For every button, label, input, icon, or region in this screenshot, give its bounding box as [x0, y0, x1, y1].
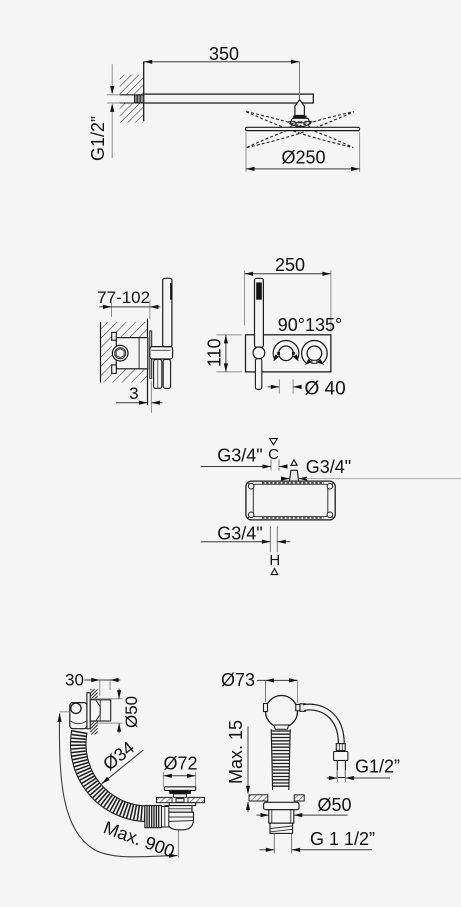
svg-text:C: C [268, 446, 279, 463]
label 90deg 135deg [278, 315, 342, 335]
fig3 handshower hose connector circle [253, 347, 265, 359]
left knob rotation arc [273, 340, 299, 361]
fig4 right port stub [290, 470, 299, 481]
dimension 30 text [65, 671, 84, 690]
fig3 handshower spray face [256, 282, 262, 299]
overflow escutcheon [87, 693, 90, 729]
svg-text:Ø250: Ø250 [281, 148, 325, 168]
fig5 tub deck hatch left [157, 797, 173, 802]
bath drain popup cap [164, 787, 195, 791]
dimension D73 text [221, 670, 255, 690]
fig2 handshower holder bracket [150, 347, 173, 359]
fig1 right extension line to head centre [299, 62, 301, 99]
ball right connector [296, 704, 306, 712]
fig1 connector dark nut [293, 116, 306, 119]
svg-text:G3/4": G3/4" [217, 446, 262, 466]
mixer valve body (in wall) [116, 338, 148, 369]
svg-text:H: H [269, 552, 280, 569]
dimension 250 line [245, 272, 331, 276]
label G1/2 (rotated) [88, 116, 108, 161]
dimension G1.5 extension lines [274, 833, 291, 853]
dimension 3 extension line [150, 381, 152, 413]
dimension D34 leader [102, 750, 144, 784]
bath drain cap neck [174, 794, 187, 798]
dimension 3 line [116, 401, 163, 405]
dimension D73 line [257, 678, 298, 682]
dimension G1/2 extension lines [337, 770, 345, 782]
G1/2 tail pipe [337, 761, 345, 778]
fig5 drain body tab [176, 799, 184, 803]
fig2 hose drop left [154, 360, 162, 389]
svg-text:90°135°: 90°135° [278, 315, 342, 335]
marker triangle above C [270, 439, 278, 445]
fig1 shower head plate [245, 127, 359, 130]
svg-text:110: 110 [205, 338, 225, 367]
fig1 pipe gap mask in wall [120, 96, 144, 103]
dimension D40 line [267, 385, 301, 389]
corrugated hose (curved) [70, 730, 145, 822]
dimension D50 fig6 line [257, 813, 348, 817]
dimension G1/2 vertical leader [110, 64, 114, 158]
ball left stub [264, 704, 268, 712]
fig2 valve body mask [112, 338, 148, 369]
overflow knob body [70, 703, 87, 729]
curved hose to G1/2 [304, 707, 342, 744]
mixer cartridge hex [116, 349, 124, 358]
fig1 pipe lines through wall [120, 95, 144, 103]
dimension Max15 text (rotated) [226, 720, 246, 784]
marker triangle above right port [291, 460, 297, 466]
dimension 77-102 text [97, 288, 150, 307]
fig1 tilted head position (dashed, +18.5deg) [245, 105, 356, 151]
dimension right port arrows [281, 477, 307, 481]
dimension D72 text [163, 754, 197, 774]
dimension D73 extension lines [266, 680, 298, 703]
dimension Max900 extension at drain [178, 830, 180, 859]
fig2 wall hatched section [101, 322, 148, 383]
fig2 trim plate (3mm) [150, 331, 152, 379]
fig5 drain under-deck flange [169, 803, 196, 806]
svg-text:G1/2”: G1/2” [88, 116, 108, 161]
fig1 pipe wall fitting [135, 95, 144, 103]
fig1 head mount skirt [290, 118, 311, 126]
svg-text:Ø73: Ø73 [221, 670, 255, 690]
dimension 110 text (rotated) [205, 338, 225, 367]
dimension H extension lines [270, 526, 277, 552]
svg-text:G1/2”: G1/2” [355, 757, 400, 777]
left knob [278, 346, 295, 361]
dimension 30 extension lines [100, 680, 110, 696]
fig1 pipe extension lines (G1/2 dim) [107, 95, 120, 103]
overflow knob circle [71, 703, 81, 713]
svg-text:Ø 40: Ø 40 [305, 378, 346, 399]
right knob [307, 346, 322, 363]
fig6 tub deck hatch left [249, 795, 268, 801]
fig3 handshower handle [255, 278, 264, 347]
valve body bottom port strip [262, 517, 324, 519]
dimension G1/2 line [327, 776, 390, 780]
dimension 110 line [224, 335, 228, 372]
bath drain cap dark band [169, 790, 191, 794]
valve body corner screws [248, 483, 332, 517]
valve body corner chamfers [247, 482, 334, 518]
dimension G1.5 line [260, 848, 373, 852]
svg-text:Ø50: Ø50 [122, 696, 141, 728]
fig3 hose drop [255, 359, 261, 390]
svg-text:G 1 1/2”: G 1 1/2” [310, 829, 375, 849]
dimension Max900 arc [58, 713, 178, 857]
fig5 drain locknut [165, 806, 192, 813]
svg-text:3: 3 [129, 384, 138, 403]
fig5 tub deck hatch right [188, 797, 205, 802]
fig2 wall back line [100, 322, 102, 383]
fig2 handshower spray face (dark edge) [170, 283, 172, 300]
dimension Max900 text (rotated) [101, 817, 177, 861]
dimension D250 text [281, 148, 325, 168]
svg-text:250: 250 [275, 255, 305, 275]
label G1/2 fig6 [355, 757, 400, 777]
dimension D50 arrows [117, 689, 121, 734]
svg-text:350: 350 [209, 44, 239, 64]
ball neck to hose [274, 725, 289, 729]
valve body plan outline [246, 481, 335, 520]
dimension D40 text [305, 378, 346, 399]
fig5 wall hatch top [90, 689, 97, 700]
dimension D72 extension lines [163, 772, 195, 787]
label H [269, 552, 280, 569]
mixer trim plate front view [246, 335, 331, 372]
label C [268, 446, 279, 463]
right knob rotation arc [302, 341, 328, 365]
dimension D40 extension lines [279, 379, 293, 393]
fig1 shower arm pipe [144, 94, 314, 103]
dimension H line [201, 540, 290, 544]
svg-text:Ø50: Ø50 [318, 795, 352, 815]
svg-text:G3/4": G3/4" [306, 457, 351, 477]
fig6 under-deck flange [264, 802, 299, 809]
corrugated vertical hose [271, 729, 290, 790]
dimension 3 text [129, 384, 138, 403]
fig4 reference line to page edge [306, 478, 461, 480]
fig2 wall face line [147, 319, 149, 406]
fig5 wall hatch bottom [90, 721, 97, 734]
fig5 hose-to-drain nut [162, 807, 169, 828]
dimension 250 text [275, 255, 305, 275]
label G1.5 [310, 829, 375, 849]
dimension D72 line [163, 774, 195, 778]
label G3/4 right [306, 457, 351, 477]
dimension D250 line [246, 167, 360, 171]
dimension C line [201, 464, 288, 468]
label D50 fig6 [318, 795, 352, 815]
fig6 drain body [269, 810, 294, 824]
hose end fitting [336, 744, 345, 751]
hose end collar (ribbed) [145, 806, 162, 828]
fig1 wall hatched section [120, 75, 144, 123]
label G3/4 bottom [217, 524, 262, 544]
hose end nut [334, 752, 348, 761]
dimension 250 extension lines [245, 271, 331, 333]
fig6 tub deck hatch right [294, 795, 304, 801]
dimension 77-102 line [99, 305, 160, 309]
dimension Max900 extension at overflow [60, 711, 70, 713]
fig5 drain lower body [168, 812, 194, 830]
fig6 threaded tail [270, 823, 293, 833]
dimension D50 extension lines [90, 699, 122, 723]
dimension D34 text (rotated) [99, 737, 138, 774]
fig1 wall face line [143, 62, 145, 122]
overflow tube through wall [90, 700, 110, 721]
svg-text:77-102: 77-102 [97, 288, 150, 307]
svg-text:Max. 15: Max. 15 [226, 720, 246, 784]
fig2 hose drop right [163, 360, 170, 389]
dimension C extension lines [271, 460, 279, 471]
dimension 77-102 extension lines [112, 300, 150, 320]
svg-text:Ø72: Ø72 [163, 754, 197, 774]
svg-text:G3/4": G3/4" [217, 524, 262, 544]
dimension D50 text (rotated) [122, 696, 141, 728]
valve body top port strip [262, 482, 324, 484]
svg-text:30: 30 [65, 671, 84, 690]
dimension Max15 line [246, 727, 250, 813]
fig2 handshower handle [163, 278, 172, 346]
dimension 30 line [85, 678, 121, 682]
valve body inner edge [253, 484, 327, 516]
overflow ball body [266, 696, 298, 728]
marker triangle below H [271, 569, 278, 575]
dimension D250 extension lines [246, 132, 360, 172]
fig1 head connector cone [295, 100, 305, 116]
dimension 350 line [144, 60, 300, 64]
dimension 350 text [209, 44, 239, 64]
dimension 110 extension lines [216, 335, 242, 372]
fig1 tilted head position (dashed, -18.5deg) [244, 105, 355, 151]
mixer cartridge circle [112, 345, 128, 361]
label G3/4 top-left [217, 446, 262, 466]
mixer mounting tabs [112, 332, 117, 373]
